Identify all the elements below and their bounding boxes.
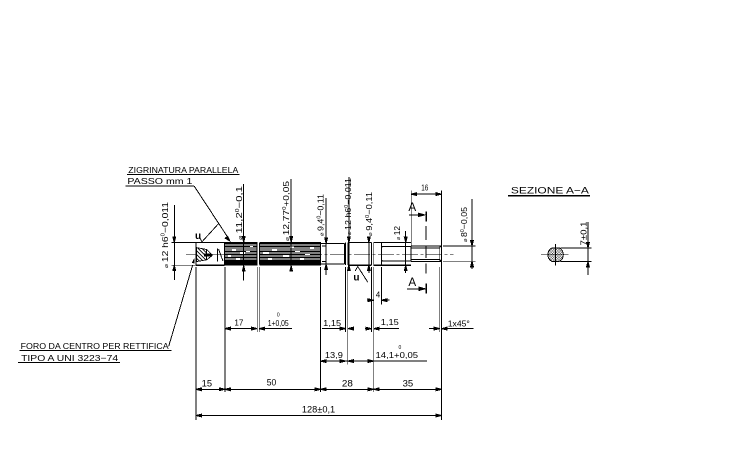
svg-text:16: 16: [421, 183, 428, 192]
roughness symbol under segment 4: [355, 267, 368, 283]
svg-text:A: A: [408, 200, 416, 214]
svg-text:1,15: 1,15: [323, 319, 342, 328]
section crosshair centerlines: [541, 253, 569, 255]
svg-text:1x45°: 1x45°: [448, 319, 470, 328]
svg-text:13,9: 13,9: [325, 351, 344, 360]
leader to center hole: [169, 265, 193, 346]
svg-text:ZIGRINATURA PARALLELA: ZIGRINATURA PARALLELA: [128, 165, 238, 175]
dim d12 plain : line: [405, 231, 407, 273]
arrows 17: [225, 327, 231, 330]
arrows d12h6 left: [173, 237, 176, 243]
dim d12h6 second : line: [348, 177, 350, 271]
dim d8 : line: [471, 199, 473, 269]
svg-text:FORO DA CENTRO PER RETTIFI: FORO DA CENTRO PER RETTIFICA: [21, 341, 169, 351]
svg-text:0: 0: [399, 345, 402, 351]
dim d12.77 : line: [290, 179, 292, 269]
svg-text:u: u: [195, 231, 201, 242]
arrows 1.15 b: [366, 327, 372, 330]
arrows d12 plain: [404, 237, 407, 243]
svg-text:A: A: [408, 275, 416, 289]
svg-text:128±0,1: 128±0,1: [302, 405, 335, 415]
svg-text:SEZIONE A−A: SEZIONE A−A: [511, 185, 590, 196]
svg-text:PASSO mm 1: PASSO mm 1: [127, 176, 192, 186]
arrows d11.2: [242, 237, 245, 243]
shaft end section d8 with flats, 16mm: [411, 246, 442, 261]
dim d9.4 first : line: [325, 198, 327, 275]
arrows d12h6 second: [348, 237, 351, 243]
arrows 1x45: [434, 327, 440, 330]
center hole (foro da centro) hatched countersink: [197, 248, 223, 262]
svg-text:15: 15: [202, 378, 212, 388]
view arrow top: [409, 214, 419, 216]
arrows d9.4 second: [368, 237, 371, 243]
arrow 1+0.05: [259, 327, 265, 330]
knurl end verticals: [224, 242, 226, 266]
svg-text:⌀ 12 h60−0,011: ⌀ 12 h60−0,011: [343, 178, 353, 235]
shaft segment 3 (d9.4, 13.9mm relief): [321, 243, 345, 264]
svg-text:14,1+0,05: 14,1+0,05: [376, 351, 419, 360]
knurl groove 1mm wide (d11.2): [258, 241, 260, 266]
arrows 1.15 a: [340, 327, 346, 330]
groove 1 (1.15mm): [346, 243, 348, 265]
svg-text:⌀ 9,40−0,11: ⌀ 9,40−0,11: [364, 192, 374, 236]
dim 1x45 lines: [429, 328, 440, 330]
dim d8 : extension lines: [443, 245, 476, 247]
dim 1+0.05 line: [259, 328, 292, 330]
shaft segment 4 (d12 h6, 14.1mm): [348, 242, 372, 265]
svg-text:⌀ 12: ⌀ 12: [392, 226, 402, 240]
svg-text:1,15: 1,15: [381, 318, 400, 327]
section dim 7+-0.1: [561, 222, 592, 275]
svg-text:⌀ 12 h60−0,011: ⌀ 12 h60−0,011: [160, 202, 170, 268]
svg-text:⌀ 80−0,05: ⌀ 80−0,05: [459, 207, 469, 242]
svg-text:⌀ 9,40−0,11: ⌀ 9,40−0,11: [316, 194, 326, 236]
dim 1.15 a lines: [322, 328, 346, 330]
flat surfaces lines on d12: [382, 246, 411, 261]
arrows 4: [368, 299, 374, 302]
section shape d8 with flats, hatched: [548, 248, 563, 261]
groove 2 (1.15mm): [371, 243, 373, 265]
svg-text:7±0,1: 7±0,1: [580, 221, 589, 246]
svg-text:1+0,05: 1+0,05: [268, 319, 289, 328]
svg-text:50: 50: [267, 378, 277, 388]
svg-text:35: 35: [403, 379, 414, 389]
centerline of shaft: [186, 253, 454, 255]
svg-text:28: 28: [342, 379, 353, 389]
dim 4 lines: [367, 299, 374, 301]
svg-text:u: u: [353, 273, 359, 284]
dim d9.4 second : line: [368, 238, 370, 273]
dim d11.2 : line: [243, 184, 245, 281]
svg-text:17: 17: [234, 319, 244, 328]
svg-text:⌀ 11,20−0,1: ⌀ 11,20−0,1: [234, 186, 244, 240]
arrows d9.4 first: [325, 238, 328, 244]
dim d12h6 left : extension lines: [172, 241, 196, 243]
svg-text:4: 4: [376, 291, 381, 300]
leader to knurl: [194, 186, 228, 237]
dim 17 line: [225, 328, 257, 330]
collar (4mm) and d12 section with milled flats: [374, 242, 411, 265]
svg-text:0: 0: [277, 313, 280, 319]
shaft segment 1 (d12 h6, 15mm) outline: [196, 242, 225, 266]
dim d12h6 left : line: [173, 205, 175, 280]
arrows d12.77: [290, 237, 293, 243]
dim 1.15 b lines: [365, 328, 371, 330]
view arrow bottom: [407, 288, 420, 290]
arrows d8: [471, 241, 474, 247]
roughness symbol on segment 1: [200, 224, 219, 242]
knurled section (zigrinatura) 50mm: [225, 241, 321, 266]
svg-text:TIPO A UNI 3223−74: TIPO A UNI 3223−74: [21, 353, 118, 363]
extension lines down from shaft: [195, 267, 197, 420]
arrowheads of vertical dimensions: [173, 237, 474, 272]
svg-text:⌀ 12,770+0,05: ⌀ 12,770+0,05: [281, 181, 291, 241]
